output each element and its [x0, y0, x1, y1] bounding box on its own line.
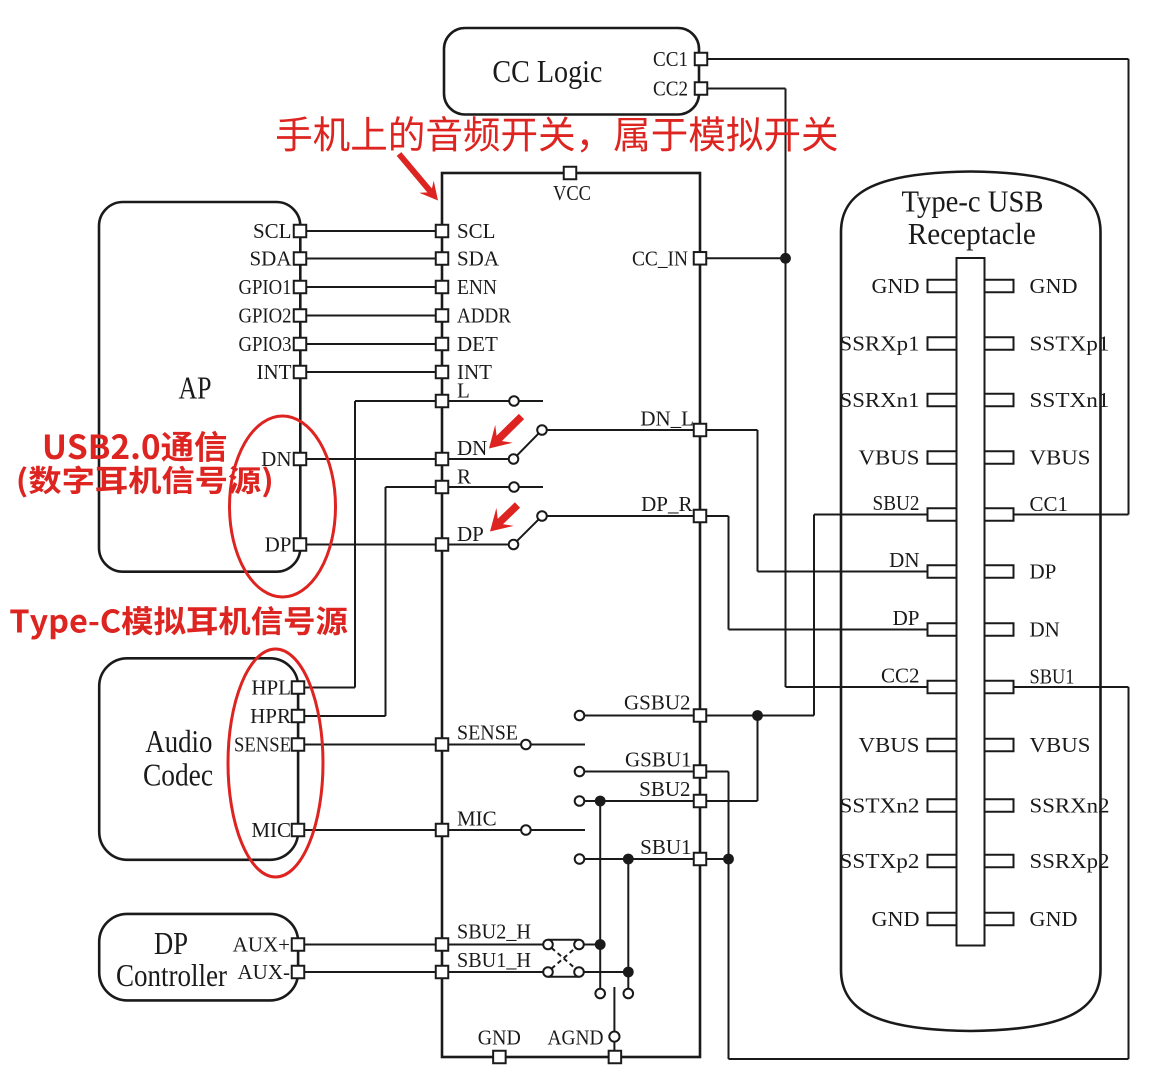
receptacle pin GND (left) — [928, 280, 957, 293]
wire DP_R to receptacle DP — [700, 515, 729, 517]
switch contact L — [509, 396, 519, 406]
svg-text:DP: DP — [265, 533, 292, 557]
node CC_IN junction — [780, 253, 791, 264]
red arrow to U1 — [399, 154, 431, 192]
switch contact SBU2_H a — [543, 940, 553, 950]
switch contact DN — [509, 454, 519, 464]
receptacle pin GND (right) — [985, 913, 1014, 926]
wire INT: AP to U1 — [300, 371, 442, 373]
svg-text:GND: GND — [1030, 907, 1078, 931]
svg-text:SSTXp2: SSTXp2 — [840, 849, 920, 873]
receptacle pin SSRXn1 (left) — [928, 394, 957, 407]
switch contact AGND b — [624, 989, 634, 999]
pin MIC of U1 — [436, 824, 449, 837]
block U1 audio switch — [442, 173, 700, 1057]
pin VCC — [564, 167, 577, 180]
receptacle pin SSTXp1 (right) — [985, 337, 1014, 350]
pin SBU2_H of U1 — [436, 938, 449, 951]
switch contact GSBU1 — [575, 767, 585, 777]
svg-text:ENN: ENN — [457, 275, 497, 299]
pin GSBU1 of U1 — [694, 765, 707, 778]
svg-text:SDA: SDA — [457, 247, 500, 271]
svg-text:MIC: MIC — [251, 818, 291, 842]
wire SENSE: codec to U1 — [298, 744, 442, 746]
svg-text:Audio: Audio — [145, 723, 212, 759]
svg-text:DP: DP — [1030, 560, 1057, 584]
pin AUX- of DP controller — [292, 966, 305, 979]
wire SBU2 link — [700, 800, 758, 802]
svg-text:GSBU2: GSBU2 — [624, 691, 691, 715]
switch contact SBU1_H b — [574, 967, 584, 977]
pin ADDR of U1 — [436, 309, 449, 322]
receptacle pin SSTXp2 (left) — [928, 855, 957, 868]
svg-text:CC Logic: CC Logic — [492, 53, 602, 89]
receptacle pin DP (right) — [985, 565, 1014, 578]
pin SBU1_H of U1 — [436, 966, 449, 979]
pin INT of AP — [294, 366, 307, 379]
pin GPIO2 of AP — [294, 309, 307, 322]
node SBU2_H junction — [595, 939, 606, 950]
svg-text:DN: DN — [889, 548, 919, 572]
red note: USB2.0 comms — [45, 431, 226, 462]
svg-text:GPIO2: GPIO2 — [239, 304, 292, 328]
svg-text:SBU2_H: SBU2_H — [457, 920, 531, 944]
svg-text:GSBU1: GSBU1 — [625, 748, 692, 772]
svg-text:R: R — [457, 465, 471, 489]
pin SBU2 of U1 — [694, 795, 707, 808]
wire GSBU1 link — [700, 771, 729, 773]
wire R internal — [442, 486, 509, 488]
wire DP: AP to U1 — [300, 544, 442, 546]
wire CC_IN — [700, 257, 786, 259]
wire DN: AP to U1 — [300, 458, 442, 460]
receptacle pin SSTXn1 (right) — [985, 394, 1014, 407]
svg-text:DP: DP — [154, 925, 188, 961]
switch contact DN_L — [537, 425, 547, 435]
node SBU1 junction — [623, 854, 634, 865]
svg-text:ADDR: ADDR — [457, 304, 511, 328]
receptacle pin VBUS (left) — [928, 451, 957, 464]
svg-text:AP: AP — [179, 370, 212, 406]
pin CC1 of CC Logic — [695, 53, 708, 66]
svg-text:SSRXn2: SSRXn2 — [1030, 794, 1110, 818]
wire HPL to L — [298, 687, 355, 689]
switch contact SENSE — [521, 740, 531, 750]
svg-text:SDA: SDA — [249, 247, 292, 271]
svg-text:DET: DET — [457, 332, 498, 356]
receptacle pin SSRXp2 (right) — [985, 855, 1014, 868]
svg-text:VBUS: VBUS — [859, 733, 920, 757]
svg-text:GND: GND — [478, 1026, 521, 1050]
svg-text:Codec: Codec — [143, 757, 213, 793]
svg-text:SCL: SCL — [253, 219, 292, 243]
svg-text:GND: GND — [872, 274, 920, 298]
svg-text:VBUS: VBUS — [1030, 446, 1091, 470]
wire GSBU1 internal — [584, 771, 700, 773]
wire DN_L to receptacle DN — [700, 429, 758, 431]
wire AUX+ to SBU2_H — [298, 944, 442, 946]
svg-text:HPR: HPR — [250, 704, 291, 728]
svg-text:AUX+: AUX+ — [233, 933, 290, 957]
svg-text:DN: DN — [457, 436, 487, 460]
red note: digital headset source — [19, 466, 271, 498]
switch bridge SBU2_H — [548, 939, 579, 941]
svg-text:DN_L: DN_L — [640, 407, 694, 431]
receptacle pin VBUS (right) — [985, 451, 1014, 464]
pin DN_L of U1 — [694, 424, 707, 437]
wire DP internal — [442, 544, 509, 546]
pin GSBU2 of U1 — [694, 709, 707, 722]
switch contact SBU2_H b — [574, 940, 584, 950]
wire DP_R internal — [547, 515, 700, 517]
pin SDA of U1 — [436, 252, 449, 265]
svg-text:SSTXn2: SSTXn2 — [840, 794, 920, 818]
svg-text:SSRXn1: SSRXn1 — [840, 388, 920, 412]
switch contact SBU2 — [575, 796, 585, 806]
wire SBU1 link — [700, 858, 729, 860]
svg-text:DP: DP — [457, 522, 484, 546]
wire MIC internal — [442, 829, 521, 831]
pin CC2 of CC Logic — [695, 82, 708, 95]
svg-text:SSRXp1: SSRXp1 — [840, 332, 920, 356]
pin AGND of U1 — [609, 1051, 622, 1064]
svg-text:CC2: CC2 — [881, 664, 920, 688]
switch arm DN to DN_L — [517, 433, 539, 455]
cross link dashed — [552, 948, 576, 969]
red ellipse analog pins — [228, 649, 323, 877]
node SBU1_H junction — [623, 967, 634, 978]
receptacle pin SBU1 (right) — [985, 681, 1014, 694]
svg-text:GPIO3: GPIO3 — [239, 332, 292, 356]
pin DP of AP — [294, 538, 307, 551]
receptacle pin SSRXp1 (left) — [928, 337, 957, 350]
svg-text:DP: DP — [893, 606, 920, 630]
wire CC2 from CC Logic — [699, 88, 786, 90]
receptacle pin VBUS (left) — [928, 739, 957, 752]
receptacle pin CC1 (right) — [985, 508, 1014, 521]
switch contact AGND a — [595, 989, 605, 999]
pin AUX+ of DP controller — [292, 938, 305, 951]
wire SBU1 internal — [584, 858, 700, 860]
wire ENN/GPIO1: AP to U1 — [300, 286, 442, 288]
pin SDA of AP — [294, 252, 307, 265]
svg-text:CC1: CC1 — [1030, 492, 1069, 516]
receptacle pin SBU2 (left) — [928, 508, 957, 521]
block U5 DP Controller — [99, 914, 298, 1001]
pin SENSE of U1 — [436, 738, 449, 751]
switch arm DP to DP_R — [517, 519, 539, 541]
red note: Type-C analog headset source — [10, 606, 347, 639]
red note: audio switch description — [277, 116, 837, 153]
svg-text:MIC: MIC — [457, 807, 497, 831]
svg-text:SSRXp2: SSRXp2 — [1030, 849, 1110, 873]
svg-text:AUX-: AUX- — [238, 960, 291, 984]
svg-text:GND: GND — [872, 907, 920, 931]
svg-text:VBUS: VBUS — [859, 446, 920, 470]
receptacle pin CC2 (left) — [928, 681, 957, 694]
svg-text:CC1: CC1 — [653, 47, 688, 71]
svg-text:Type-c USB: Type-c USB — [902, 184, 1044, 219]
wire AUX- to SBU1_H — [298, 971, 442, 973]
svg-text:AGND: AGND — [548, 1026, 604, 1050]
wire SBU2 riser — [599, 801, 601, 989]
wire DET/GPIO3: AP to U1 — [300, 343, 442, 345]
svg-text:SBU1_H: SBU1_H — [457, 948, 531, 972]
pin DP_R of U1 — [694, 510, 707, 523]
wire HPR to R — [298, 715, 386, 717]
wire CC1 from CC Logic — [699, 58, 1129, 60]
wire MIC: codec to U1 — [298, 829, 442, 831]
pin L of U1 — [436, 395, 449, 408]
pin HPL of codec — [292, 681, 305, 694]
receptacle pin GND (left) — [928, 913, 957, 926]
svg-text:VCC: VCC — [553, 181, 591, 205]
pin SCL of U1 — [436, 225, 449, 238]
pin SCL of AP — [294, 225, 307, 238]
wire ADDR/GPIO2: AP to U1 — [300, 315, 442, 317]
pin MIC of codec — [292, 824, 305, 837]
wire bottom link to receptacle SBU1 — [729, 1058, 1129, 1060]
svg-text:Controller: Controller — [116, 957, 227, 993]
pin SENSE of codec — [292, 738, 305, 751]
node SBU1 tap — [723, 854, 734, 865]
svg-text:CC2: CC2 — [653, 77, 688, 101]
red ellipse USB2.0 pins — [230, 416, 336, 597]
pin INT of U1 — [436, 366, 449, 379]
switch contact MIC — [521, 825, 531, 835]
pin DP of U1 — [436, 538, 449, 551]
pin ENN of U1 — [436, 281, 449, 294]
red arrow at DP switch — [498, 505, 517, 524]
switch contact R — [509, 482, 519, 492]
block U2 CC Logic — [444, 28, 699, 115]
svg-text:INT: INT — [257, 360, 292, 384]
svg-text:SBU1: SBU1 — [1030, 665, 1075, 689]
svg-text:GPIO1: GPIO1 — [239, 275, 292, 299]
wire SBU1 riser — [627, 859, 629, 989]
receptacle pin GND (right) — [985, 280, 1014, 293]
wire SBU1_H internal — [442, 971, 543, 973]
svg-text:CC_IN: CC_IN — [632, 246, 688, 270]
svg-text:SBU1: SBU1 — [640, 835, 691, 859]
receptacle pin SSRXn2 (right) — [985, 799, 1014, 812]
wire SENSE internal — [442, 744, 521, 746]
svg-text:SBU2: SBU2 — [873, 491, 920, 515]
pin CC_IN of U1 — [694, 252, 707, 264]
switch bridge SBU1_H — [548, 976, 579, 978]
svg-text:SBU2: SBU2 — [639, 777, 690, 801]
switch contact DP — [509, 540, 519, 550]
wire DN_L internal — [547, 429, 700, 431]
receptacle pin DP (left) — [928, 623, 957, 636]
block U3 AP — [99, 202, 300, 572]
svg-text:SENSE: SENSE — [234, 733, 291, 757]
svg-text:SCL: SCL — [457, 219, 496, 243]
receptacle pin SSTXn2 (left) — [928, 799, 957, 812]
pin DN of U1 — [436, 453, 449, 466]
receptacle pin DN (right) — [985, 623, 1014, 636]
svg-text:HPL: HPL — [251, 676, 291, 700]
wire L internal — [442, 400, 509, 402]
switch contact GSBU2 — [575, 711, 585, 721]
wire GSBU2 internal — [584, 715, 700, 717]
svg-text:SSTXn1: SSTXn1 — [1030, 388, 1110, 412]
pin GPIO1 of AP — [294, 281, 307, 294]
switch contact AGND — [609, 1032, 619, 1042]
switch contact SBU1_H a — [543, 967, 553, 977]
switch contact SBU1 — [575, 854, 585, 864]
svg-text:VBUS: VBUS — [1030, 733, 1091, 757]
red arrow at DN switch — [497, 417, 521, 441]
wire AGND pole — [613, 987, 615, 1032]
receptacle pin DN (left) — [928, 565, 957, 578]
pin R of U1 — [436, 481, 449, 494]
pin DN of AP — [294, 453, 307, 466]
svg-text:DP_R: DP_R — [641, 492, 692, 516]
switch contact DP_R — [537, 511, 547, 521]
wire SDA: AP to U1 — [300, 258, 442, 260]
pin GND of U1 — [493, 1051, 506, 1064]
svg-text:GND: GND — [1030, 274, 1078, 298]
svg-text:DN: DN — [1030, 618, 1060, 642]
block U4 Audio Codec — [99, 658, 298, 860]
svg-text:SENSE: SENSE — [457, 721, 518, 745]
wire GSBU2 to receptacle SBU2 — [700, 715, 814, 717]
block J1 Type-c USB Receptacle — [841, 172, 1101, 1032]
pin SBU1 of U1 — [694, 853, 707, 866]
wire SCL: AP to U1 — [300, 230, 442, 232]
node SBU2 junction — [595, 796, 606, 807]
svg-text:Receptacle: Receptacle — [908, 216, 1036, 251]
connector tongue — [957, 258, 985, 946]
receptacle pin VBUS (right) — [985, 739, 1014, 752]
svg-text:SSTXp1: SSTXp1 — [1030, 332, 1110, 356]
pin GPIO3 of AP — [294, 338, 307, 351]
node GSBU2 junction — [752, 710, 763, 721]
wire DN internal — [442, 458, 509, 460]
svg-text:L: L — [457, 379, 470, 403]
wire SBU2 internal — [584, 800, 700, 802]
pin HPR of codec — [292, 710, 305, 723]
wire SBU2_H internal — [442, 944, 543, 946]
pin DET of U1 — [436, 338, 449, 351]
